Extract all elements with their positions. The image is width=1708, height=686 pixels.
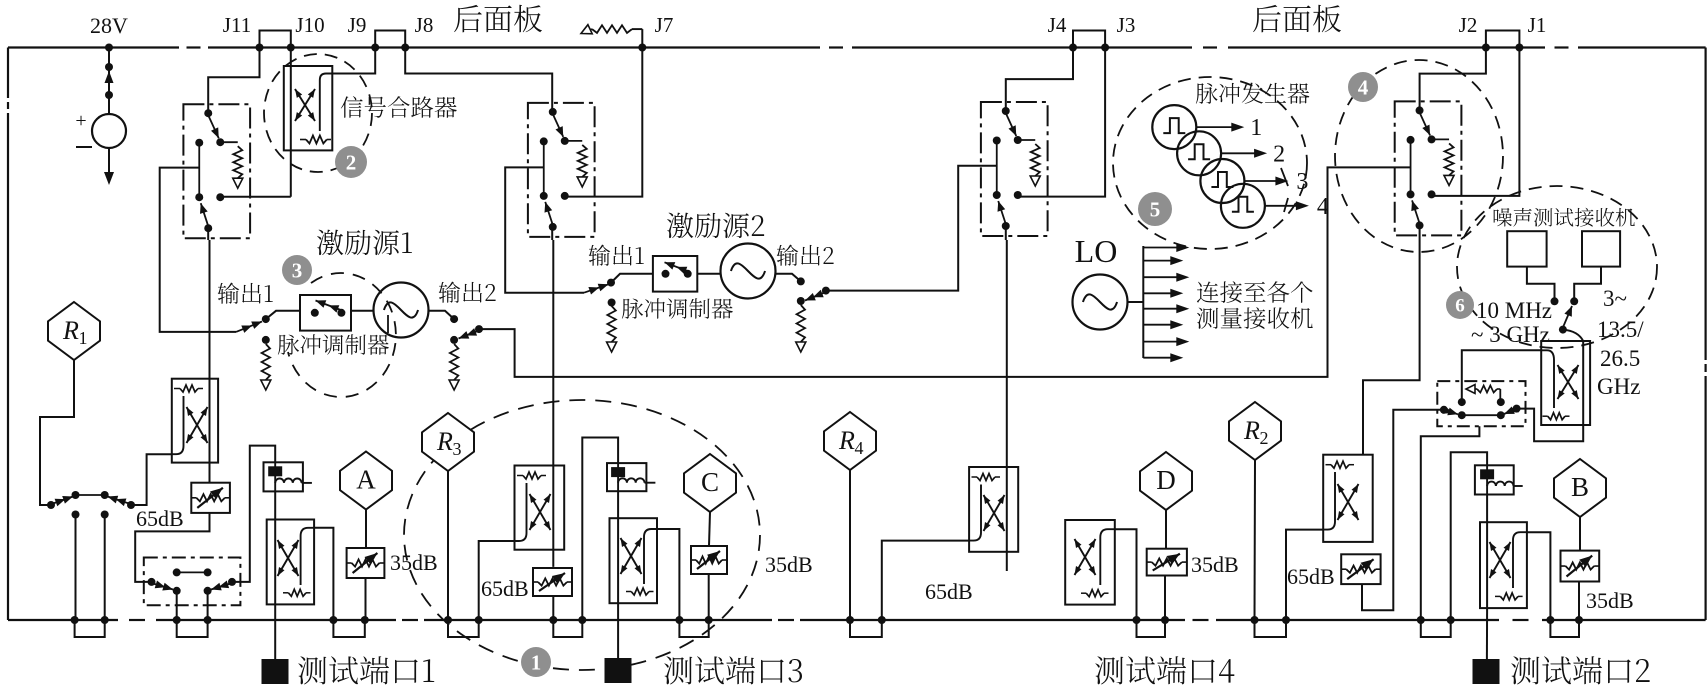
wire SW3 left-contact tap down to source2 output2 wire (828, 166, 997, 291)
svg-text:5: 5 (1150, 197, 1161, 221)
transfer switch assembly SW4 box (1395, 101, 1462, 235)
pulse generator channel 4 output arrow (1265, 205, 1303, 207)
port1 wide switch lower contacts (173, 587, 181, 595)
wire SW1 left-contact tap down to source1 output1 select (160, 168, 236, 332)
SW2 upper switch (549, 108, 557, 116)
SW3 upper switch (1002, 107, 1010, 115)
source 1 output1 selector arrow (236, 322, 262, 332)
node J4 (1069, 44, 1077, 52)
wire SW4 left-contact tap - long wire to source1 output2 (481, 167, 1411, 377)
wire R3 down to bus (447, 471, 449, 620)
pulse generator channel 1 output arrow (1196, 126, 1238, 128)
pulse generator channel 2 output arrow (1221, 152, 1261, 154)
wire noise selector to high band coupler (1563, 330, 1583, 341)
test port 3 connector square (605, 658, 632, 683)
svg-text:4: 4 (1317, 194, 1329, 220)
node bus R4 coupler arm (878, 616, 886, 624)
label connect-to-receivers line2 (1197, 307, 1313, 329)
wire mech switch bottom to bus (1421, 426, 1480, 620)
svg-text:J2: J2 (1459, 13, 1478, 37)
label source2 output1 (589, 245, 644, 266)
node on bus below cal switch B (101, 616, 109, 624)
label pulse modulator 2 (622, 298, 733, 319)
label test port 2 (1511, 656, 1649, 684)
wire J8 to SW2 top (405, 48, 552, 112)
circled number 5 (1138, 192, 1172, 226)
bridge tab below bus (port4 D receiver) (1137, 620, 1166, 637)
node on bus below cal switch A (71, 616, 79, 624)
circled number 1 (521, 647, 551, 677)
hexagon node R3 (422, 413, 474, 471)
wire noise left box to selector (1527, 267, 1555, 298)
svg-text:A: A (356, 465, 376, 495)
mech switch contacts (1458, 398, 1466, 406)
svg-text:+: + (75, 110, 86, 132)
SW1 upper switch (204, 109, 212, 117)
bridge tab below bus (port2 B receiver) (1550, 620, 1579, 637)
transfer switch assembly SW3 box (981, 102, 1048, 236)
svg-text:65dB: 65dB (481, 576, 529, 601)
svg-text:J7: J7 (655, 13, 674, 37)
bridge tab below bus (port1 wide switch) (177, 620, 208, 637)
svg-text:4: 4 (1358, 75, 1369, 99)
circled number 6 (1446, 291, 1474, 319)
port3 65dB step attenuator (533, 568, 572, 596)
wire bus up to port3 bias tee (582, 438, 618, 621)
hexagon node R2 (1229, 402, 1281, 460)
svg-text:LO: LO (1075, 233, 1118, 269)
J7 resistor to ground arrow (592, 25, 632, 33)
label rear panel right (1253, 5, 1341, 33)
pulse generator channel 4 circle (1221, 184, 1265, 228)
node bus port3 coupled (675, 616, 683, 624)
wire SW3 bottom down through R4 coupler (stub) (1005, 226, 1007, 240)
label test port 4 (1095, 656, 1234, 684)
pulse generator channel 3 circle (1200, 159, 1244, 203)
wire D to 35dB attenuator (1165, 510, 1167, 549)
bridge tab below bus (port1 A receiver) (333, 620, 364, 637)
bridge tab below bus (port3 C receiver) (679, 620, 708, 637)
port2 35dB attenuator (1561, 551, 1600, 582)
label pulse generator (1196, 83, 1310, 104)
dashed arc around source1 pulse modulator (callout 3) (288, 273, 396, 397)
wire J2 to SW4 top (1420, 48, 1486, 111)
hexagon receiver A (340, 452, 392, 510)
svg-text:R: R (436, 427, 453, 456)
circled number 2 (335, 146, 367, 178)
svg-text:B: B (1571, 472, 1589, 502)
hexagon node R4 (824, 412, 876, 470)
svg-text:1: 1 (79, 328, 88, 348)
wire port1 65dB att to wide cal switch (135, 513, 209, 582)
noise high band coupler (1541, 341, 1590, 425)
svg-text:3: 3 (292, 258, 303, 282)
port2 test coupler (B) (1486, 495, 1488, 523)
noise selector contact high band (1570, 297, 1578, 305)
wire SW1 bottom down to port1 reference coupler (207, 228, 209, 240)
SW3 lower switch (993, 191, 1001, 199)
wire J7 down to SW2 lower-right contact (566, 48, 643, 197)
node bus R3 coupler arm (475, 616, 483, 624)
wire mech switch upper-left contact to noise coupler arm (1462, 350, 1541, 402)
svg-text:J1: J1 (1528, 13, 1547, 37)
svg-text:J10: J10 (295, 13, 324, 37)
wire cal contacts down to bottom border (75, 515, 77, 621)
svg-text:4: 4 (855, 438, 864, 458)
svg-text:13.5/: 13.5/ (1597, 317, 1644, 342)
svg-text:35dB: 35dB (1586, 588, 1634, 613)
node J3 (1101, 44, 1109, 52)
wire C to 35dB attenuator (709, 512, 710, 546)
svg-text:J11: J11 (223, 13, 251, 37)
node bus port3 main (549, 616, 557, 624)
noise selector throw arrow (1559, 326, 1567, 334)
svg-text:GHz: GHz (1597, 374, 1640, 399)
svg-text:R: R (1243, 416, 1260, 445)
noise receiver left box (1507, 231, 1546, 266)
svg-text:D: D (1156, 465, 1176, 495)
svg-text:3~: 3~ (1603, 286, 1627, 311)
28V output arrow (108, 148, 110, 180)
node bus port4 coupled (1133, 616, 1141, 624)
dashed ellipse around pulse generator (callout 5) (1113, 77, 1307, 249)
hexagon receiver D (1140, 452, 1192, 510)
enclosure right border (1704, 48, 1706, 361)
svg-text:35dB: 35dB (1191, 552, 1239, 577)
port4 test coupler (D) (1065, 520, 1115, 605)
node bus port2 mech (1417, 616, 1425, 624)
pulse generator channel 2 circle (1177, 131, 1221, 175)
node bus port1 ref2 (204, 616, 212, 624)
slash mark before label 3 (1281, 168, 1288, 186)
port1 bias tee (264, 462, 303, 491)
label source 2 (667, 213, 764, 238)
port1 35dB attenuator (347, 548, 385, 578)
port3 bias tee (607, 463, 646, 491)
dashed circle around combiner (callout 2) (264, 54, 372, 172)
node J2 (1482, 44, 1490, 52)
svg-text:2: 2 (1273, 141, 1285, 167)
node J9 (371, 44, 379, 52)
signal combiner U-COMB box (284, 66, 333, 150)
wire wide switch right common up to port1 bias tee (232, 446, 275, 582)
svg-text:6: 6 (1455, 296, 1465, 317)
SW3 internal termination resistor (1018, 139, 1036, 141)
wire J11 to SW1 top (208, 48, 259, 114)
port4 35dB attenuator (1147, 549, 1187, 576)
SW4 left contacts link wire (1410, 140, 1412, 195)
enclosure top border with chain-line breaks (8, 46, 179, 48)
test port 1 connector square (262, 659, 289, 684)
label signal combiner (341, 96, 457, 118)
28V source circle (92, 114, 126, 148)
combiner termination resistor (306, 136, 327, 144)
node bus R4 (846, 616, 854, 624)
mech switch cal resistor (1472, 388, 1477, 390)
wire mech switch right common to noise coupler main (1517, 409, 1584, 442)
port1 wide transfer switch box (144, 558, 241, 606)
jumper J11-J10 (260, 31, 291, 48)
svg-text:~ 3 GHz: ~ 3 GHz (1471, 322, 1550, 347)
svg-text:J9: J9 (348, 13, 367, 37)
wire port2 main to test port 2 (1486, 608, 1488, 659)
port3 35dB attenuator (691, 546, 727, 574)
svg-text:35dB: 35dB (390, 550, 438, 575)
SW3 left contacts link wire (996, 141, 998, 196)
bridge tab below bus (R2) (1255, 620, 1287, 637)
port1 reference coupler (R1) (172, 379, 218, 463)
node bus port2 stem (1447, 616, 1455, 624)
label test port 3 (664, 656, 802, 684)
svg-text:J8: J8 (415, 13, 434, 37)
label source 1 (317, 230, 412, 255)
jumper J9-J8 (375, 31, 405, 48)
wire R2 down to bus (1254, 460, 1257, 620)
source1 output2 termination (450, 336, 458, 344)
wire port2 coupler arm to bus (1527, 532, 1551, 620)
wire J1 down to SW4 lower-right contact (1433, 48, 1520, 196)
port2 bias tee (1475, 465, 1514, 494)
source2 output2 node (797, 277, 805, 285)
wire port2 65dB att to mech switch (1362, 410, 1441, 610)
bridge tab below bus (R4) (850, 620, 882, 637)
wire R2 coupler arm to bus (1286, 530, 1323, 620)
enclosure bottom border (bus) with chain-line breaks (8, 619, 118, 621)
hexagon node R1 (48, 302, 100, 360)
source1 output2 selector arrow (475, 325, 483, 333)
SW4 internal termination resistor (1432, 138, 1450, 140)
node bus port3 stem (578, 616, 586, 624)
wire SW2 bottom down through R3 coupler (551, 227, 553, 240)
jumper J2-J1 (1486, 31, 1520, 48)
SW2 left contacts link wire (543, 141, 545, 196)
wire SW2 left-contact tap down to source2 output1 select (505, 167, 584, 292)
wire port3 main to test port 3 (617, 603, 619, 658)
test port 2 connector square (1473, 659, 1500, 684)
label source2 output2 (777, 245, 834, 266)
wire J10 through combiner main line down to SW1 right contact (290, 48, 292, 197)
svg-text:3: 3 (1296, 169, 1308, 195)
node bus below A attenuator (361, 616, 369, 624)
source2 output1 termination (608, 299, 616, 307)
enclosure left border (7, 48, 9, 99)
SW2 internal termination resistor (565, 140, 583, 142)
label source1 output2 (439, 282, 496, 303)
port1 wide switch left throw (148, 578, 156, 586)
wire A to 35dB attenuator (365, 510, 367, 549)
hexagon receiver C (684, 454, 736, 512)
node J8 (401, 44, 409, 52)
noise selector contact low band (1551, 297, 1559, 305)
tick mark on arrow 4 (1284, 198, 1288, 212)
node bus below B attenuator (1575, 616, 1583, 624)
label connect-to-receivers line1 (1197, 281, 1313, 303)
node bus below C attenuator (705, 616, 713, 624)
node bus R3 (444, 616, 452, 624)
SW4 upper switch (1416, 106, 1424, 114)
source1 pulse modulator (300, 295, 351, 331)
SW1 left contacts link wire (198, 143, 200, 198)
source2 output2 termination (797, 297, 805, 305)
source2 output1 node (607, 279, 615, 287)
svg-text:28V: 28V (90, 13, 128, 38)
port1 wide switch right throw (228, 578, 236, 586)
source2 output2 selector arrow (822, 287, 830, 295)
label source1 output1 (218, 283, 273, 304)
LO oscillator (1073, 275, 1128, 330)
combiner coupled arm from J9 (334, 48, 375, 74)
svg-text:R: R (838, 426, 855, 455)
dashed ellipse around noise test receiver (callout 6) (1457, 186, 1657, 348)
wire R4 down to bus (849, 470, 851, 620)
svg-text:10 MHz: 10 MHz (1476, 298, 1552, 323)
noise receiver right box (1582, 231, 1620, 266)
left cal switch right throw arrow (127, 501, 135, 509)
label test port 1 (298, 656, 434, 684)
bridge tab below bus (R3) (448, 620, 479, 637)
svg-text:65dB: 65dB (1287, 564, 1335, 589)
source1 output1 node (262, 315, 270, 323)
mech switch right throw (1513, 405, 1521, 413)
jumper J4-J3 (1073, 31, 1105, 48)
wire B to 35dB attenuator (1579, 517, 1581, 551)
transfer switch assembly SW2 box (528, 103, 595, 237)
SW2 lower switch (540, 192, 548, 200)
R4 reference coupler (969, 467, 1018, 552)
bridge tab below bus (cal switch pair) (75, 620, 105, 637)
wire noise right box to selector (1574, 267, 1601, 298)
node J1 (1515, 44, 1523, 52)
node bus below D attenuator (1161, 616, 1169, 624)
pulse generator channel 3 output arrow (1244, 180, 1282, 182)
source1 oscillator (374, 283, 429, 338)
bridge tab below bus (port2 main) (1421, 620, 1451, 637)
transfer switch assembly SW1 box (183, 104, 250, 238)
left cal switch contacts (72, 491, 80, 499)
wire SW4 bottom down then left to R2 coupler main (1363, 225, 1420, 454)
port1 test coupler (274, 491, 276, 519)
wire R4 coupler arm to bus (882, 541, 969, 620)
node 28V on top border (105, 44, 113, 52)
node bus port2 coupled (1546, 616, 1554, 624)
svg-text:1: 1 (1250, 115, 1262, 141)
source2 oscillator (721, 244, 776, 299)
svg-text:26.5: 26.5 (1600, 346, 1640, 371)
port1 65dB step attenuator (191, 483, 230, 513)
node bus R2 (1251, 616, 1259, 624)
dashed circle around SW4 (callout 4) (1335, 60, 1503, 252)
dashed ellipse callout 1 (around source/port1-3 low band section) (404, 400, 760, 670)
SW1 internal termination resistor (220, 141, 238, 143)
svg-text:R: R (62, 316, 79, 345)
node bus port1 coupled (329, 616, 337, 624)
port2 65dB step attenuator (1341, 554, 1380, 584)
svg-text:J4: J4 (1048, 13, 1067, 37)
svg-text:2: 2 (346, 150, 357, 174)
mech switch left throw (1440, 406, 1448, 414)
wire port1 coupler coupled arm to bus (314, 528, 333, 620)
node J7 (638, 44, 646, 52)
node J10 (287, 44, 295, 52)
label pulse modulator 1 (278, 334, 389, 355)
svg-text:65dB: 65dB (925, 579, 973, 604)
source1 output2 node (450, 315, 458, 323)
circled number 4 (1348, 72, 1378, 102)
wire port3 coupler arm to bus (657, 529, 679, 620)
combiner crossing arrows (295, 89, 315, 121)
28V bias supply wire and arrows (108, 48, 110, 115)
LO distribution bus (1128, 301, 1144, 303)
wire port4 coupler arm to bus (1115, 529, 1137, 620)
port1 wide switch top bar (173, 568, 181, 576)
SW1 lower switch (195, 193, 203, 201)
node J11 (256, 44, 264, 52)
pulse generator channel 1 circle (1152, 105, 1196, 149)
node bus port1 ref (173, 616, 181, 624)
node bus R2 coupler arm (1282, 616, 1290, 624)
svg-text:C: C (701, 467, 719, 497)
label rear panel left (454, 5, 542, 33)
LO output arrows (1143, 247, 1183, 249)
source1 output1 termination (262, 336, 270, 344)
wire R1 down to cal transfer switch (40, 360, 74, 505)
SW4 lower switch (1407, 190, 1415, 198)
source 2 output1 selector arrow (584, 284, 609, 292)
wire SW3 top to J4 (1006, 48, 1073, 112)
wire port1 main to test port 1 (274, 604, 276, 659)
svg-text:35dB: 35dB (765, 552, 813, 577)
wire J3 down to SW3 lower-right contact (1019, 48, 1105, 197)
svg-text:3: 3 (453, 439, 462, 459)
port3 test coupler (617, 491, 619, 518)
R2 reference coupler (1323, 455, 1373, 542)
source2 pulse modulator (653, 256, 697, 292)
R3 reference coupler (515, 466, 565, 550)
wire left cal switch to reference coupler arm (131, 454, 172, 505)
wire R3 coupler arm to bus (479, 541, 515, 620)
label noise test receiver (1494, 208, 1635, 227)
port2 mechanical cal switch box (1437, 381, 1525, 426)
svg-text:65dB: 65dB (136, 506, 184, 531)
svg-text:1: 1 (531, 650, 542, 674)
left cal switch left throw arrow (47, 501, 55, 509)
hexagon receiver B (1554, 459, 1606, 517)
circled number 3 (282, 255, 312, 285)
wire bus up to port2 bias tee (1451, 452, 1487, 620)
svg-text:2: 2 (1260, 428, 1269, 448)
svg-text:J3: J3 (1117, 13, 1136, 37)
bridge tab below bus (port3 main) (553, 620, 582, 637)
